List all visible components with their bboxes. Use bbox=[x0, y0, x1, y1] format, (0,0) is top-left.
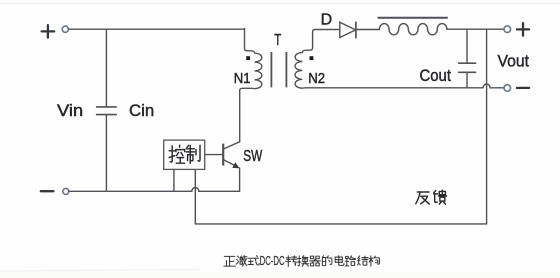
terminal input minus bbox=[41, 190, 54, 192]
wire control ground leg bbox=[173, 169, 175, 191]
svg-text:N1: N1 bbox=[234, 71, 251, 87]
svg-text:Vin: Vin bbox=[57, 101, 83, 120]
label control zhi bbox=[186, 145, 200, 163]
caption char ji bbox=[236, 256, 247, 266]
wire bottom input rail with hop bbox=[69, 188, 240, 192]
control box bbox=[164, 140, 205, 169]
label control kong bbox=[169, 145, 184, 163]
caption char zheng bbox=[224, 256, 235, 266]
wire diode to inductor bbox=[356, 29, 380, 31]
wire output bottom rail hop bbox=[483, 84, 504, 88]
diode D cathode bar bbox=[355, 22, 357, 37]
svg-text:D: D bbox=[321, 12, 333, 29]
caption char dian bbox=[335, 256, 344, 266]
node input plus circle bbox=[62, 26, 68, 32]
label feedback fan bbox=[416, 192, 429, 204]
svg-text:SW: SW bbox=[243, 148, 263, 165]
label feedback kui bbox=[434, 190, 447, 204]
dot marker N1 bbox=[246, 56, 250, 60]
caption char zhuan bbox=[286, 256, 297, 266]
caption char de bbox=[322, 256, 332, 266]
wire feedback bottom rail bbox=[195, 223, 486, 225]
wire top output rail bbox=[447, 28, 504, 30]
caption char gou bbox=[369, 256, 379, 266]
terminal input plus bbox=[42, 25, 55, 37]
node input minus circle bbox=[63, 188, 69, 194]
terminal output minus bbox=[517, 87, 529, 89]
transistor emitter arrow bbox=[232, 162, 239, 168]
transistor Q SW base bar bbox=[222, 144, 224, 166]
transformer secondary winding N2 bbox=[295, 30, 483, 89]
wire control to base bbox=[205, 154, 223, 156]
svg-text:Vout: Vout bbox=[498, 51, 530, 70]
caption char qi bbox=[309, 256, 320, 266]
capacitor Cout bbox=[459, 29, 476, 88]
svg-text:Cin: Cin bbox=[129, 101, 154, 120]
svg-text:N2: N2 bbox=[308, 71, 325, 87]
diode D triangle bbox=[340, 22, 356, 37]
capacitor Cin bbox=[97, 29, 117, 191]
caption char jie bbox=[358, 256, 368, 265]
transformer core bbox=[271, 52, 286, 87]
wire feedback vertical left to control bbox=[194, 169, 196, 224]
node output minus circle bbox=[504, 85, 511, 92]
wire feedback vertical right bbox=[486, 29, 488, 224]
caption char shi bbox=[248, 256, 259, 265]
svg-text:Cout: Cout bbox=[420, 66, 452, 85]
transformer T primary winding N1 bbox=[240, 29, 262, 134]
svg-text:T: T bbox=[274, 32, 281, 49]
wire top input rail bbox=[69, 28, 245, 30]
caption char huan bbox=[298, 256, 309, 267]
dot marker N2 bbox=[310, 56, 314, 60]
faint top edge artifact bbox=[0, 3, 560, 5]
faint bottom band artifact bbox=[0, 272, 560, 278]
transistor collector wire bbox=[239, 133, 241, 142]
svg-text:DC-DC: DC-DC bbox=[260, 254, 285, 268]
inductor core bar bbox=[378, 17, 448, 19]
wire emitter down bbox=[239, 168, 241, 191]
terminal output plus bbox=[517, 23, 529, 35]
inductor L winding bbox=[379, 24, 447, 35]
caption char lu bbox=[345, 256, 355, 266]
node output plus circle bbox=[504, 26, 511, 33]
transistor emitter diagonal bbox=[224, 160, 238, 167]
transistor collector diagonal bbox=[224, 142, 240, 149]
